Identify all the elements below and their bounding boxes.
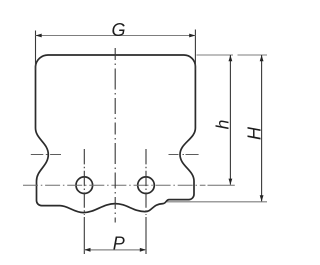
svg-text:H: H <box>245 126 265 140</box>
right hole vertical center line <box>145 149 147 215</box>
h arrow top <box>229 55 233 61</box>
H dimension line <box>261 55 263 202</box>
bottom right extension line <box>167 201 267 203</box>
P dimension line <box>84 249 146 251</box>
h dimension line <box>229 55 231 185</box>
G arrow left <box>36 34 42 38</box>
G dimension line <box>36 35 196 37</box>
svg-text:G: G <box>111 20 125 40</box>
svg-text:P: P <box>113 233 125 253</box>
P arrow left <box>84 248 90 252</box>
left hole center line solid bottom piece <box>83 217 85 254</box>
right groove tick center line <box>169 154 199 156</box>
hole circle right <box>138 177 155 194</box>
H arrow top <box>260 55 264 61</box>
top extension line segment 2 <box>238 54 268 56</box>
hole circle left <box>76 177 93 194</box>
center line horizontal through holes <box>23 184 206 186</box>
center line horizontal solid right piece <box>208 184 235 186</box>
right hole center line solid bottom piece <box>145 217 147 254</box>
left groove tick center line <box>31 154 61 156</box>
part outline <box>36 55 196 213</box>
top extension line segment 1 <box>197 54 234 56</box>
G extension line right <box>194 30 196 71</box>
P arrow right <box>140 248 146 252</box>
G extension line left <box>35 31 37 71</box>
central vertical center line <box>114 48 116 223</box>
H arrow bottom <box>260 195 264 201</box>
svg-text:h: h <box>213 120 233 130</box>
h arrow bottom <box>229 179 233 185</box>
G arrow right <box>189 34 195 38</box>
left hole vertical center line <box>83 149 85 215</box>
